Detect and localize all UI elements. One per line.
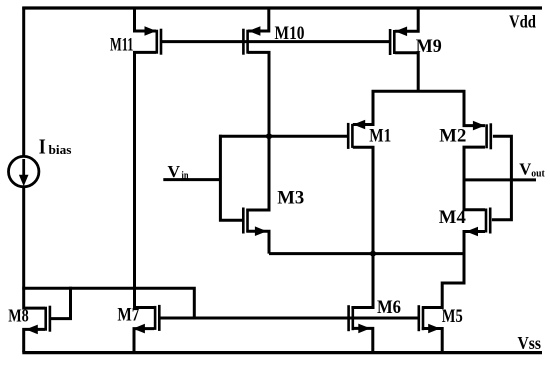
svg-text:M6: M6: [377, 297, 401, 318]
svg-text:in: in: [182, 170, 189, 182]
svg-text:M7: M7: [117, 305, 139, 326]
svg-text:I: I: [39, 135, 46, 159]
svg-text:out: out: [531, 168, 545, 180]
svg-text:M9: M9: [416, 36, 442, 57]
svg-text:V: V: [168, 162, 181, 181]
svg-text:V: V: [519, 160, 532, 179]
svg-text:M4: M4: [439, 207, 466, 228]
svg-text:M10: M10: [275, 23, 305, 44]
svg-text:M11: M11: [110, 35, 134, 56]
svg-text:bias: bias: [49, 143, 72, 157]
svg-text:M3: M3: [277, 188, 304, 209]
svg-text:Vss: Vss: [518, 333, 542, 353]
svg-text:M8: M8: [8, 306, 29, 326]
svg-text:M2: M2: [439, 126, 466, 147]
svg-text:Vdd: Vdd: [509, 12, 536, 32]
svg-text:M1: M1: [369, 126, 391, 147]
svg-text:M5: M5: [442, 306, 463, 327]
